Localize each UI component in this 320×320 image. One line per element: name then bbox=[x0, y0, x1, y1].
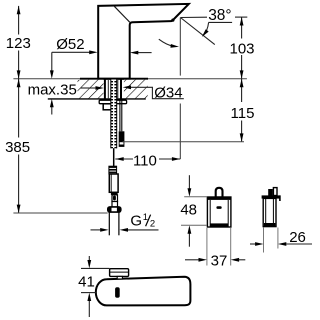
deck hatching left bbox=[78, 80, 104, 99]
hose end nut bbox=[108, 207, 121, 212]
hose thread block bbox=[109, 166, 117, 174]
side box bottom band bbox=[264, 223, 275, 226]
box front dash bbox=[216, 206, 221, 209]
sensor cable bbox=[119, 99, 121, 131]
box front bottom band bbox=[210, 223, 228, 226]
dimension 110 bbox=[115, 158, 133, 160]
spout transition edge bbox=[114, 6, 129, 22]
check valve body bbox=[109, 174, 118, 192]
max.35 upper arrow / Ø52 drop bbox=[51, 52, 53, 70]
mounting tab top view bbox=[110, 269, 129, 277]
hole wall left bbox=[104, 79, 106, 99]
bottom view capsule body bbox=[96, 277, 191, 306]
dimension 123 bbox=[18, 6, 20, 35]
deck hatching right bbox=[124, 80, 148, 99]
dimension 37 bbox=[206, 228, 208, 266]
svg-text:37: 37 bbox=[211, 253, 228, 270]
hole wall right bbox=[120, 79, 122, 99]
dimension 48 bbox=[188, 175, 190, 190]
G1/2 leader arrows bbox=[91, 229, 101, 231]
svg-text:41: 41 bbox=[78, 273, 95, 290]
svg-text:110: 110 bbox=[133, 153, 157, 170]
side box plug bbox=[268, 189, 273, 196]
max.35 lower arrow bbox=[51, 107, 53, 115]
sensor indicator arc arrow bbox=[159, 39, 174, 46]
G1/2 pipe end bbox=[108, 212, 110, 235]
faucet body outline (side view) bbox=[98, 4, 189, 79]
103 top tick bbox=[235, 16, 247, 18]
svg-text:2: 2 bbox=[150, 219, 155, 230]
max.35 leader arrow bbox=[81, 87, 97, 89]
side box top lip bbox=[262, 195, 281, 198]
svg-text:385: 385 bbox=[5, 139, 30, 156]
deck top line bbox=[13, 78, 247, 80]
dimension 41 bbox=[81, 267, 110, 269]
svg-text:103: 103 bbox=[229, 40, 254, 57]
spout outlet nib bbox=[173, 5, 187, 19]
extension line at hose connector level bbox=[123, 141, 245, 143]
Ø34 leader bbox=[130, 87, 184, 98]
svg-text:38°: 38° bbox=[208, 7, 231, 24]
Ø52 right arrow bbox=[137, 52, 152, 54]
control box front view bbox=[207, 197, 231, 227]
box plug front bbox=[216, 188, 223, 198]
dimension 26 bbox=[263, 228, 265, 253]
svg-text:max.35: max.35 bbox=[28, 82, 77, 99]
dimension 103 bbox=[241, 17, 243, 38]
svg-text:115: 115 bbox=[231, 105, 255, 122]
valve dark band bbox=[111, 192, 118, 195]
control box side view bbox=[263, 198, 276, 226]
tip vertical extension line bbox=[179, 18, 181, 76]
extension line hose end bbox=[13, 212, 107, 214]
svg-text:26: 26 bbox=[289, 229, 306, 246]
svg-text:G: G bbox=[130, 213, 142, 230]
38 degree leader lines bbox=[180, 16, 207, 18]
threaded shank bbox=[111, 80, 117, 149]
valve lower collar bbox=[112, 202, 118, 208]
svg-text:48: 48 bbox=[180, 201, 197, 218]
dimension 385 bbox=[18, 79, 20, 138]
sensor window slot bbox=[115, 287, 120, 298]
dimension 115 bbox=[241, 79, 243, 102]
mounting nut bbox=[103, 104, 114, 110]
washer under deck bbox=[99, 100, 126, 104]
svg-text:123: 123 bbox=[6, 35, 31, 52]
cable connector bbox=[119, 131, 125, 147]
valve slot section bbox=[112, 195, 118, 202]
deck bottom line bbox=[48, 98, 146, 100]
supply hose upper bbox=[113, 148, 115, 166]
Ø52 leader line bbox=[52, 51, 90, 53]
svg-text:Ø52: Ø52 bbox=[56, 36, 84, 53]
